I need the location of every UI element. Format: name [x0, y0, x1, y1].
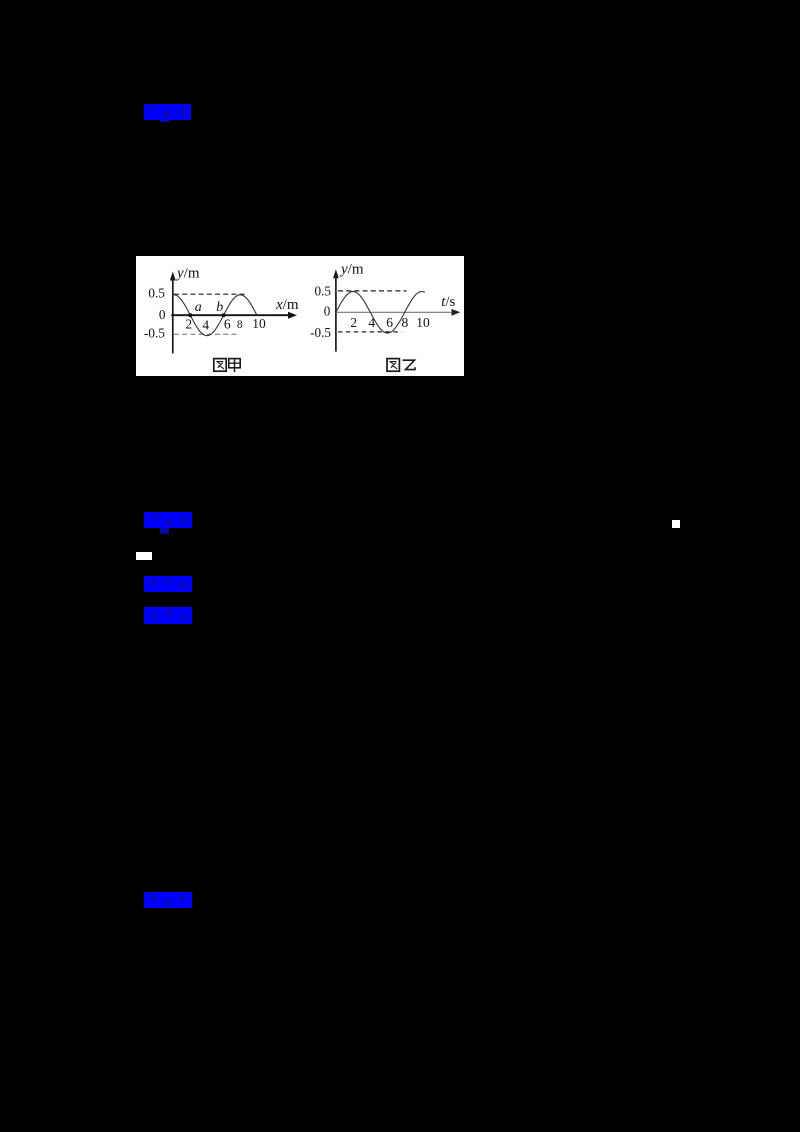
panel background [136, 256, 464, 376]
caption 图甲 : glyph 图 [214, 359, 226, 372]
left y-axis arrowhead [170, 272, 176, 281]
svg-text:a: a [195, 300, 202, 315]
point b dot [222, 313, 226, 317]
left x-axis [171, 314, 291, 316]
svg-text:10: 10 [416, 315, 430, 330]
svg-text:0.5: 0.5 [148, 286, 165, 301]
right top dashed line y=+0.5 [338, 290, 407, 292]
svg-text:-0.5: -0.5 [144, 325, 165, 340]
svg-text:6: 6 [386, 315, 393, 330]
left bottom dashed line y=-0.5 [174, 333, 240, 335]
blue label 1 descender [160, 120, 169, 122]
svg-text:x/m: x/m [275, 297, 299, 313]
svg-text:10: 10 [252, 316, 266, 331]
svg-text:6: 6 [224, 317, 231, 332]
svg-text:4: 4 [202, 318, 209, 333]
svg-text:-0.5: -0.5 [310, 325, 331, 340]
blue label 2 (analysis tag) [144, 512, 192, 528]
svg-text:0.5: 0.5 [315, 283, 332, 298]
svg-text:2: 2 [185, 317, 192, 332]
blue label 3 [144, 576, 192, 592]
caption 图乙 : glyph 乙 [403, 360, 416, 369]
svg-text:0: 0 [159, 307, 166, 322]
left x-axis arrowhead [288, 312, 297, 319]
svg-text:t/s: t/s [441, 294, 455, 310]
right wave curve [336, 292, 425, 334]
left top dashed line y=+0.5 [174, 293, 247, 295]
caption 图乙 : glyph 图 [387, 359, 399, 372]
svg-text:8: 8 [237, 319, 243, 331]
blue label 1 (answer tag) [144, 104, 191, 120]
blue label 2 descender [160, 528, 169, 534]
right y-axis [335, 276, 337, 352]
right y-axis arrowhead [333, 269, 339, 278]
small white square bullet [672, 520, 680, 528]
white dash mark [136, 552, 152, 560]
point a dot [188, 313, 192, 317]
left wave curve [173, 295, 257, 336]
left y-axis [172, 278, 174, 354]
right bottom dashed line y=-0.5 [338, 331, 402, 333]
svg-text:4: 4 [368, 315, 375, 330]
blue label 4 [144, 607, 192, 624]
svg-text:y/m: y/m [339, 261, 364, 277]
right x-axis arrowhead [452, 309, 461, 316]
right x-axis [336, 311, 455, 313]
figure panel (white box with two wave graphs) [136, 256, 464, 376]
svg-text:y/m: y/m [175, 265, 200, 281]
svg-text:0: 0 [324, 304, 331, 319]
svg-text:2: 2 [350, 315, 357, 330]
caption 图甲 : glyph 甲 [229, 359, 240, 373]
svg-text:b: b [216, 300, 223, 315]
blue label 5 (final tag) [144, 892, 192, 908]
